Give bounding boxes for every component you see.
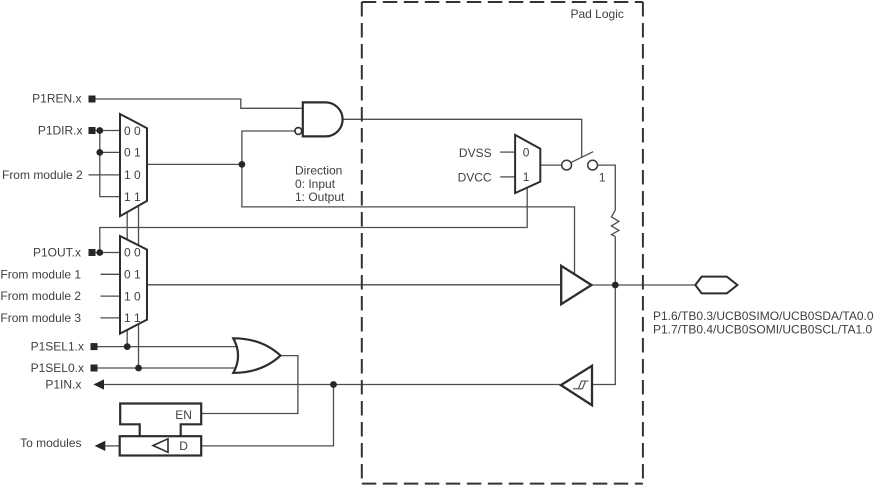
node P1DIR row2 junction xyxy=(96,149,103,156)
Pad Logic dashed boundary xyxy=(362,2,643,484)
wire From module 3 to mux3 input 11 xyxy=(101,317,121,319)
wire P1SEL1.x to OR gate xyxy=(98,346,239,348)
node P1IN to D junction xyxy=(330,381,337,388)
svg-text:1 1: 1 1 xyxy=(124,190,141,204)
register bit marker P1SEL1.x xyxy=(91,343,98,350)
svg-text:From module 2: From module 2 xyxy=(0,289,81,303)
wire direction net to output buffer enable xyxy=(242,164,575,274)
wire mux1 output direction net xyxy=(147,163,242,165)
wire From module 2 to mux1 input 10 xyxy=(89,174,121,176)
wire P1IN net to latch D input xyxy=(201,385,333,446)
wire To modules from D latch xyxy=(105,445,119,447)
svg-text:1: Output: 1: Output xyxy=(295,190,345,204)
register bit marker P1REN.x xyxy=(89,96,96,103)
svg-text:1: 1 xyxy=(523,170,530,184)
svg-text:DVCC: DVCC xyxy=(458,170,492,184)
svg-text:DVSS: DVSS xyxy=(459,146,492,160)
wire DVSS stub xyxy=(500,151,515,153)
svg-text:Pad Logic: Pad Logic xyxy=(571,7,624,21)
register bit marker P1DIR.x xyxy=(89,127,96,134)
svg-text:P1SEL0.x: P1SEL0.x xyxy=(31,361,84,375)
svg-text:0: Input: 0: Input xyxy=(295,177,336,191)
output buffer driver xyxy=(561,266,591,304)
svg-text:P1.6/TB0.3/UCB0SIMO/UCB0SDA/TA: P1.6/TB0.3/UCB0SIMO/UCB0SDA/TA0.0 xyxy=(653,309,874,323)
svg-text:0 0: 0 0 xyxy=(124,246,141,260)
svg-text:To modules: To modules xyxy=(20,436,81,450)
svg-text:1 0: 1 0 xyxy=(124,289,141,303)
svg-text:P1REN.x: P1REN.x xyxy=(32,92,81,106)
svg-text:From module 1: From module 1 xyxy=(0,267,81,281)
wire direction net to AND gate inverted input xyxy=(242,131,295,164)
wire From module 2 to mux3 input 10 xyxy=(101,295,121,297)
node direction net junction xyxy=(239,161,246,168)
arrowhead To modules xyxy=(95,441,106,451)
register bit marker P1OUT.x xyxy=(89,249,96,256)
svg-text:0 1: 0 1 xyxy=(124,146,141,160)
node P1OUT junction xyxy=(96,249,103,256)
switch S1 (resistor enable) xyxy=(562,152,606,185)
AND gate U1 (REN enable, with inverted direction input) xyxy=(295,102,343,136)
register bit marker P1SEL0.x xyxy=(91,365,98,372)
wire switch to resistor xyxy=(598,165,616,210)
wire P1OUT.x to mux3 input 00 xyxy=(96,252,121,254)
node pad junction xyxy=(612,282,619,289)
label Direction legend xyxy=(295,164,345,205)
wire mux3 output to output buffer xyxy=(147,284,561,286)
wire mux2 output to switch xyxy=(540,164,562,166)
svg-text:0: 0 xyxy=(523,145,530,159)
wire P1REN.x to AND gate top input xyxy=(96,99,303,108)
wire From module 1 to mux3 input 01 xyxy=(101,273,121,275)
wire mux2 select from P1OUT net xyxy=(100,188,527,253)
svg-text:P1SEL1.x: P1SEL1.x xyxy=(31,340,84,354)
wire mux select line 0 (P1SEL0) xyxy=(138,205,140,368)
OR gate U2 (P1SEL function enable) xyxy=(233,338,280,373)
svg-text:P1.7/TB0.4/UCB0SOMI/UCB0SCL/TA: P1.7/TB0.4/UCB0SOMI/UCB0SCL/TA1.0 xyxy=(653,323,873,337)
svg-text:1 1: 1 1 xyxy=(124,311,141,325)
latch D box xyxy=(120,436,202,455)
wire pad node down to input buffer xyxy=(592,285,615,385)
svg-text:From module 2: From module 2 xyxy=(2,168,83,182)
latch EN box xyxy=(120,404,201,437)
input buffer (Schmitt trigger) xyxy=(561,366,592,405)
wire mux select line 1 (P1SEL1) xyxy=(126,211,128,347)
node P1SEL1 junction xyxy=(124,343,131,350)
svg-text:P1OUT.x: P1OUT.x xyxy=(33,246,81,260)
node P1DIR junction xyxy=(96,127,103,134)
wire P1DIR.x to mux1 input 00 xyxy=(96,130,121,132)
svg-text:P1IN.x: P1IN.x xyxy=(45,378,81,392)
svg-text:EN: EN xyxy=(175,408,192,422)
svg-text:D: D xyxy=(179,439,188,453)
wire P1SEL0.x to OR gate xyxy=(98,367,239,369)
wire DVCC stub xyxy=(500,176,515,178)
wire resistor to pad node xyxy=(614,236,616,285)
mux M3 output select (P1OUT / modules) xyxy=(120,236,147,334)
mux M2 pull resistor source select (DVSS / DVCC) xyxy=(515,135,540,193)
arrowhead P1IN.x xyxy=(93,379,104,389)
node P1SEL0 junction xyxy=(135,365,142,372)
svg-text:From module 3: From module 3 xyxy=(0,311,81,325)
wire P1DIR.x fanout vertical to mux1 inputs 01 and 11 xyxy=(100,131,120,197)
wire OR gate output to EN xyxy=(201,356,298,414)
svg-text:1: 1 xyxy=(599,171,606,185)
svg-text:0 1: 0 1 xyxy=(124,268,141,282)
pad pin hexagon xyxy=(695,277,737,294)
resistor pullup/pulldown xyxy=(611,210,619,236)
wire input buffer output to P1IN.x xyxy=(104,384,561,386)
svg-text:1 0: 1 0 xyxy=(124,168,141,182)
wire AND gate output to switch xyxy=(343,119,582,157)
svg-text:P1DIR.x: P1DIR.x xyxy=(38,124,83,138)
wire output buffer to pad xyxy=(592,284,696,286)
mux M1 direction select (P1DIR / From module 2) xyxy=(120,114,147,216)
svg-text:Direction: Direction xyxy=(295,164,342,178)
svg-text:0 0: 0 0 xyxy=(124,124,141,138)
